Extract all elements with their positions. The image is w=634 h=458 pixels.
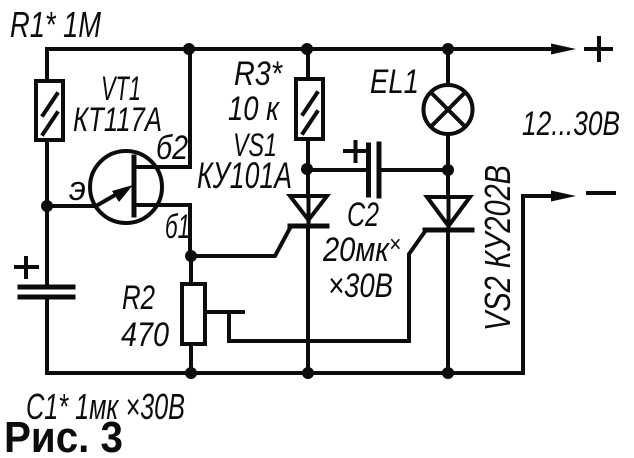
transistor VT1 (90, 151, 162, 223)
svg-text:R3*: R3* (234, 55, 283, 93)
svg-text:б1: б1 (165, 208, 190, 246)
wire tap to VS2 gate (229, 230, 426, 341)
svg-text:10 к: 10 к (228, 90, 281, 128)
svg-text:б2: б2 (156, 129, 188, 167)
svg-text:12...30В: 12...30В (522, 105, 620, 143)
node VS2 bottom rail junction (442, 367, 454, 379)
node base2 rail junction (183, 43, 195, 55)
svg-text:20мк×: 20мк× (322, 231, 401, 269)
wire R2 tap (205, 310, 243, 314)
wire R1 top lead (45, 49, 49, 81)
svg-text:С2: С2 (347, 196, 379, 234)
svg-text:R2: R2 (122, 279, 155, 317)
wire VS1 cathode lead (306, 226, 310, 373)
node R2 bottom rail junction (185, 367, 197, 379)
resistor R1 (36, 81, 63, 140)
wire R3 bottom lead (306, 139, 310, 196)
wire VS2 cathode lead (446, 230, 450, 373)
wire EL1 bottom lead (446, 134, 450, 197)
+ terminal symbol (586, 38, 611, 60)
resistor R2 (182, 284, 205, 344)
node R3 rail junction (301, 43, 313, 55)
wire base2 lead (134, 49, 190, 167)
lamp EL1 (424, 85, 473, 134)
node base1 junction (185, 250, 197, 262)
wire top positive rail (47, 47, 554, 51)
wire bottom rail (47, 371, 523, 375)
wire R2 bottom lead (189, 344, 193, 373)
wire R1 bottom lead (45, 140, 49, 206)
svg-text:470: 470 (121, 316, 169, 354)
wire EL1 top lead (446, 49, 450, 85)
svg-text:VS2 КУ202В: VS2 КУ202В (477, 165, 518, 331)
svg-text:КТ117А: КТ117А (73, 101, 162, 139)
node VS2 anode junction (442, 164, 454, 176)
arrow + output (551, 44, 576, 55)
wire R2 top lead (189, 256, 193, 284)
svg-text:R1* 1М: R1* 1М (10, 4, 101, 45)
resistor R3 (296, 79, 323, 139)
thyristor VS1 (192, 196, 327, 256)
svg-text:КУ101А: КУ101А (197, 155, 292, 196)
capacitor C1 (16, 206, 73, 373)
svg-text:EL1: EL1 (370, 63, 419, 101)
svg-text:э: э (69, 170, 86, 208)
thyristor VS2 (425, 197, 472, 230)
arrow - output (551, 191, 576, 202)
wire R3 top lead (306, 49, 310, 79)
- terminal symbol (588, 191, 614, 195)
node VS1 bottom rail junction (302, 367, 314, 379)
node emitter junction (41, 200, 53, 212)
wire emitter (47, 204, 96, 208)
node VS1 anode junction (301, 163, 313, 175)
capacitor C2 (308, 142, 448, 196)
svg-text:×30В: ×30В (328, 267, 393, 305)
wire negative output riser (523, 196, 553, 373)
wire base1 lead (134, 205, 190, 256)
node EL1 rail junction (442, 43, 454, 55)
svg-text:Рис. 3: Рис. 3 (4, 413, 123, 458)
